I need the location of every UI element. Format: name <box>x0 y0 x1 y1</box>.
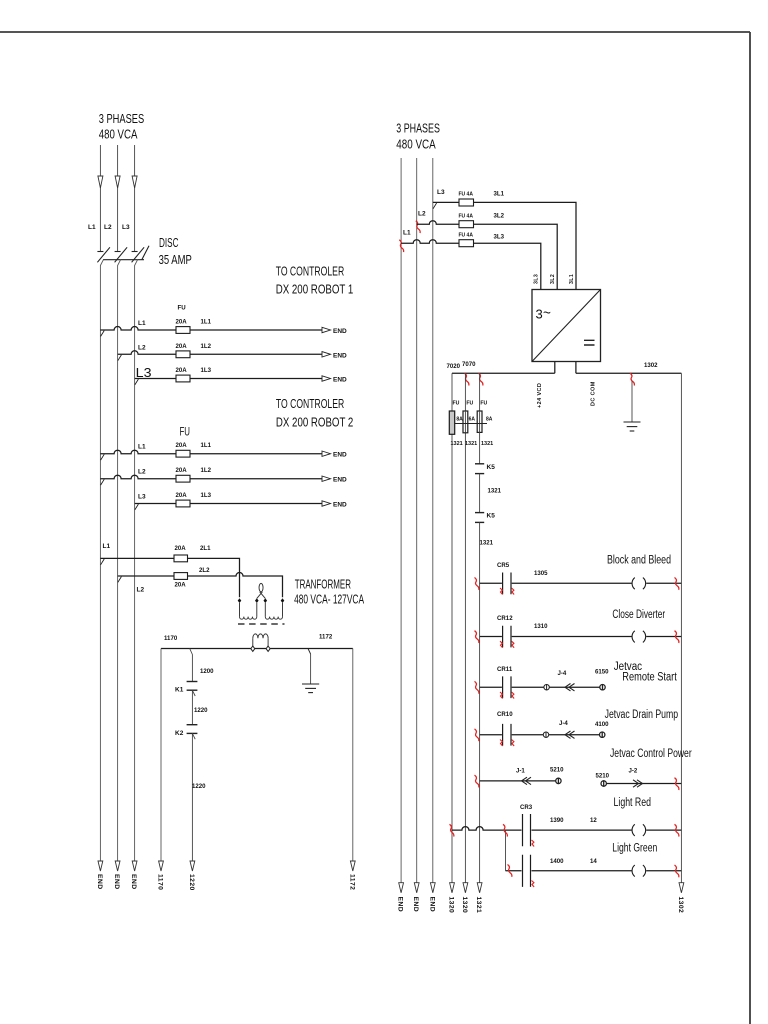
fuse 20A row8 <box>174 573 188 580</box>
svg-text:1320: 1320 <box>448 897 455 914</box>
fuse FU 20A row3 <box>176 375 190 382</box>
svg-text:1170: 1170 <box>164 635 178 642</box>
svg-text:FU 4A: FU 4A <box>459 232 474 238</box>
nub to ground drop <box>308 649 311 655</box>
svg-text:END: END <box>428 897 435 913</box>
fuse FU 4A row 3L2 <box>459 221 474 228</box>
svg-text:20A: 20A <box>176 442 188 449</box>
contact CR10 bars <box>503 724 511 746</box>
svg-text:FU: FU <box>180 425 191 439</box>
svg-text:14: 14 <box>590 858 597 865</box>
primary terminal diamond 4 <box>281 598 285 603</box>
svg-text:K5: K5 <box>487 464 496 471</box>
red mark 1302 <box>630 373 634 385</box>
disc pole2 fixed contact tick <box>115 251 121 253</box>
svg-text:L2: L2 <box>137 587 145 594</box>
svg-text:Light Red: Light Red <box>614 797 652 809</box>
svg-text:7070: 7070 <box>462 361 476 368</box>
arrow 1172 <box>350 861 355 871</box>
svg-text:20A: 20A <box>176 367 188 374</box>
svg-text:J-4: J-4 <box>559 720 568 727</box>
contact CR3 bars <box>523 814 531 846</box>
svg-text:L3: L3 <box>437 189 445 196</box>
svg-text:Light Green: Light Green <box>612 843 657 855</box>
svg-text:8A: 8A <box>456 417 463 423</box>
svg-text:J-4: J-4 <box>558 670 567 677</box>
svg-text:END: END <box>96 874 103 890</box>
contact CR3 aux bars <box>523 855 531 887</box>
contact K5 lower bars <box>475 512 484 514</box>
svg-text:END: END <box>333 502 347 509</box>
fuse column 1 (FU 8A / 1320) <box>451 373 453 883</box>
END arrow row2 <box>322 352 331 357</box>
svg-text:1321: 1321 <box>475 897 482 914</box>
svg-text:K5: K5 <box>487 513 496 520</box>
svg-text:1320: 1320 <box>461 897 468 914</box>
svg-text:CR3: CR3 <box>520 804 533 811</box>
arrow 1302 <box>679 883 684 893</box>
svg-text:FU: FU <box>178 305 187 312</box>
rung 7: CR3 aux -> Light Green <box>506 855 682 887</box>
svg-text:L1: L1 <box>138 444 146 451</box>
svg-text:1172: 1172 <box>319 634 333 641</box>
svg-text:END: END <box>333 377 347 384</box>
svg-text:TO CONTROLER: TO CONTROLER <box>276 397 344 411</box>
svg-text:3L1: 3L1 <box>494 191 505 198</box>
terminal 4100 circle <box>600 732 605 737</box>
disc pole3 blade <box>132 247 145 262</box>
bus jog around row7 <box>101 559 105 565</box>
svg-text:K1: K1 <box>175 687 184 694</box>
svg-text:2L2: 2L2 <box>199 567 210 574</box>
svg-text:20A: 20A <box>176 492 188 499</box>
svg-text:20A: 20A <box>176 319 188 326</box>
fuse 20A row7 <box>174 555 188 562</box>
bus L3 vertical <box>135 260 138 861</box>
disc linkage bar <box>103 259 144 261</box>
svg-text:6A: 6A <box>469 417 476 423</box>
svg-text:20A: 20A <box>175 545 187 552</box>
fuse column 3 (FU 8A / 1321) <box>479 373 481 411</box>
svg-text:Block and Bleed: Block and Bleed <box>607 555 671 567</box>
svg-text:1220: 1220 <box>194 707 208 714</box>
svg-text:END: END <box>333 477 347 484</box>
branch nub 1L1 <box>101 331 105 337</box>
red mark 7070 tap2 <box>479 373 483 385</box>
svg-text:3L3: 3L3 <box>494 233 505 240</box>
svg-text:1305: 1305 <box>534 570 548 577</box>
svg-text:L1: L1 <box>103 543 111 550</box>
arrow END L1 <box>98 861 103 871</box>
wire 1390 with jumps over 1320/1321 rails <box>452 827 681 830</box>
svg-text:1400: 1400 <box>550 858 564 865</box>
K1 K2 relay coil chain <box>187 649 198 862</box>
wire 1L3 <box>135 378 322 380</box>
arrow 1170 <box>159 861 164 871</box>
contact K1 bars <box>187 681 198 683</box>
bus L1 vertical <box>100 260 103 861</box>
svg-text:+24 VCD: +24 VCD <box>537 383 543 408</box>
group2 row 1L2 <box>100 475 322 485</box>
svg-text:DC COM: DC COM <box>591 381 597 406</box>
fuse tie bar <box>455 423 487 425</box>
wire 7020/7070 bus <box>452 372 555 374</box>
svg-text:3L3: 3L3 <box>534 274 540 284</box>
svg-text:CR5: CR5 <box>497 562 510 569</box>
bus R-L1 vertical <box>400 158 402 883</box>
wire 3L2 jump over L3 <box>417 221 558 290</box>
svg-text:1321: 1321 <box>481 441 493 447</box>
disc pole1 fixed contact tick <box>97 251 103 253</box>
svg-text:END: END <box>113 874 120 890</box>
border frame right line <box>749 32 751 1024</box>
svg-text:L3: L3 <box>138 494 146 501</box>
group1 row 1L1 <box>100 327 322 337</box>
svg-text:3 PHASES: 3 PHASES <box>99 112 145 126</box>
bus jog around row5 <box>101 479 105 485</box>
group2 row 1L3 <box>135 504 322 510</box>
terminal 6150 circle <box>600 685 605 690</box>
wire 1170 drop <box>160 649 162 862</box>
svg-text:7020: 7020 <box>447 363 461 370</box>
coil Close Diverter <box>632 631 646 643</box>
svg-text:L2: L2 <box>138 344 146 351</box>
svg-text:3 PHASES: 3 PHASES <box>396 122 440 136</box>
ground drop wire <box>310 654 312 684</box>
bus L2 vertical <box>118 260 121 861</box>
nub to K chain <box>190 649 193 655</box>
fuse column 2 (FU 6A / 1320) <box>464 373 466 883</box>
svg-text:FU: FU <box>466 401 473 407</box>
arrow END R-L1 <box>399 883 404 893</box>
contact K2 bars <box>187 724 198 726</box>
svg-text:L2: L2 <box>104 224 112 231</box>
svg-text:1390: 1390 <box>550 817 564 824</box>
bottom END arrows left schematic <box>98 861 355 871</box>
svg-text:Jetvac Drain Pump: Jetvac Drain Pump <box>605 709 679 721</box>
svg-text:FU: FU <box>453 401 460 407</box>
svg-text:L2: L2 <box>418 211 426 218</box>
bus jog around row6 <box>135 504 139 510</box>
branch nub 1L3 <box>135 379 139 385</box>
svg-text:Jetvac Control Power: Jetvac Control Power <box>610 748 692 760</box>
svg-text:2L1: 2L1 <box>200 545 211 552</box>
svg-text:480 VCA: 480 VCA <box>99 127 138 141</box>
ladder right rail (wire 1302) <box>680 373 682 883</box>
svg-text:5210: 5210 <box>596 773 610 780</box>
disc pole2 blade <box>115 247 128 262</box>
ladder left rail (wire 1321) <box>479 522 481 882</box>
wire 1L2 robot2 with jumps <box>100 475 322 478</box>
svg-text:12: 12 <box>590 817 597 824</box>
svg-text:1321: 1321 <box>465 441 477 447</box>
wire L3 incoming drop <box>134 145 136 252</box>
terminal circle rung3 <box>544 685 549 690</box>
primary jumper lasso link <box>257 592 263 599</box>
svg-text:1200: 1200 <box>200 668 214 675</box>
red mark 7070 tap1 <box>465 373 469 385</box>
svg-text:1321: 1321 <box>451 441 463 447</box>
wire 3L3 jumps over L2 L3 <box>401 240 541 290</box>
wire 1172 drop <box>352 649 354 862</box>
connector J-4 chevrons rung4 <box>565 731 575 738</box>
red mark at L1 branch <box>399 240 403 252</box>
connector J-1 chevrons <box>522 777 532 784</box>
svg-text:1220: 1220 <box>192 783 206 790</box>
fuse FU 20A row1 <box>176 327 190 334</box>
nub below K2 <box>192 734 195 740</box>
wire 1L3 robot2 <box>135 503 322 505</box>
fuse FU 20A row2 <box>176 351 190 358</box>
svg-text:20A: 20A <box>176 467 188 474</box>
svg-text:TO CONTROLER: TO CONTROLER <box>276 265 345 279</box>
svg-text:Close Diverter: Close Diverter <box>612 609 665 621</box>
red mark at L2 branch <box>416 221 420 233</box>
arrow END L3 <box>132 861 137 871</box>
ground symbol (transformer secondary) <box>302 649 319 693</box>
svg-text:DX 200 ROBOT 1: DX 200 ROBOT 1 <box>276 282 354 296</box>
bus R-L2 vertical <box>416 158 418 883</box>
power converter U1 (3~ / =) <box>532 290 601 362</box>
primary coil B (4 bumps) <box>265 617 282 620</box>
disc pole1 blade <box>97 247 110 262</box>
connector J-2 chevrons <box>633 780 643 787</box>
svg-text:1L1: 1L1 <box>201 319 212 326</box>
arrow 1320 b <box>463 883 468 893</box>
svg-text:L1: L1 <box>403 230 411 237</box>
svg-text:1302: 1302 <box>677 897 684 914</box>
primary terminal diamond 3 <box>264 598 268 603</box>
fuse FU 4A row 3L1 <box>459 199 474 206</box>
svg-text:TRANFORMER: TRANFORMER <box>295 578 351 592</box>
svg-text:Remote Start: Remote Start <box>622 672 677 684</box>
group2 row 1L1 <box>100 450 322 460</box>
group1 row 1L3 <box>135 379 322 385</box>
secondary terminal diamond right <box>266 646 270 651</box>
svg-text:J-1: J-1 <box>516 768 525 775</box>
svg-text:L1: L1 <box>138 320 146 327</box>
secondary coil (3 bumps up) <box>253 634 268 638</box>
connector J-4 chevrons rung3 <box>565 684 575 691</box>
group3 row 2L2 <box>118 573 283 598</box>
svg-text:END: END <box>397 897 404 913</box>
svg-text:1L3: 1L3 <box>201 367 212 374</box>
svg-text:4100: 4100 <box>595 721 609 728</box>
DC bus +24VCD / DC COM <box>452 362 681 374</box>
bus jog around row4 <box>101 454 105 460</box>
arrow END L2 <box>115 861 120 871</box>
wire 1200 <box>191 655 193 682</box>
wire 3L1 <box>433 202 576 289</box>
svg-text:1172: 1172 <box>348 874 355 890</box>
rung 5 left: J-1 to 5210 <box>480 780 556 782</box>
disconnect switch DISC 35 AMP <box>97 246 149 262</box>
contact CR5 bars <box>503 573 511 595</box>
svg-text:~: ~ <box>543 306 551 321</box>
END arrow row1 <box>322 327 331 332</box>
secondary terminal diamond left <box>251 646 255 651</box>
svg-text:K2: K2 <box>175 730 184 737</box>
svg-text:1321: 1321 <box>488 488 502 495</box>
border frame top line <box>0 31 750 33</box>
svg-text:480 VCA: 480 VCA <box>396 137 436 151</box>
svg-text:END: END <box>130 874 137 890</box>
svg-text:CR11: CR11 <box>497 666 513 673</box>
primary coil B stubs <box>265 603 282 617</box>
svg-text:1L3: 1L3 <box>201 492 212 499</box>
wire 1321 mid <box>479 474 481 513</box>
svg-text:END: END <box>333 352 347 359</box>
branch to rung 7 <box>505 830 507 871</box>
svg-text:DX 200 ROBOT 2: DX 200 ROBOT 2 <box>276 415 353 429</box>
svg-text:FU 4A: FU 4A <box>459 213 474 219</box>
svg-text:1L2: 1L2 <box>201 467 212 474</box>
bus R-L3 vertical <box>432 158 434 883</box>
ground at DC COM <box>624 381 641 431</box>
arrowhead L1 feed <box>98 176 103 188</box>
END arrow row3 <box>322 376 331 381</box>
contact CR11 bars <box>503 676 511 698</box>
nub below K1 <box>192 690 195 696</box>
stub +24 VCD <box>554 362 556 374</box>
arrow END R-L2 <box>414 883 419 893</box>
svg-text:1321: 1321 <box>480 540 494 547</box>
svg-text:8A: 8A <box>486 417 493 423</box>
disc pole3 fixed contact tick <box>132 251 138 253</box>
svg-text:CR10: CR10 <box>497 711 513 718</box>
svg-text:3L2: 3L2 <box>494 212 505 219</box>
wire from fuse3 to K5 <box>479 432 481 463</box>
wire 1170-1172 secondary bus <box>161 649 353 862</box>
svg-text:3L1: 3L1 <box>569 274 575 284</box>
svg-text:J-2: J-2 <box>629 768 638 775</box>
wire 1220 mid <box>191 690 193 724</box>
svg-text:480 VCA- 127VCA: 480 VCA- 127VCA <box>294 593 364 607</box>
svg-text:L3: L3 <box>122 224 130 231</box>
branch nub 1L2 <box>118 355 122 361</box>
nub 3L1 <box>433 203 437 209</box>
svg-text:DISC: DISC <box>159 236 179 250</box>
svg-text:FU 4A: FU 4A <box>459 192 474 198</box>
wire 1L1 robot2 with jumps <box>100 450 322 453</box>
secondary stubs <box>253 638 268 646</box>
primary coil A stubs <box>240 603 257 617</box>
terminal 5210 circle left <box>556 778 561 783</box>
svg-text:1220: 1220 <box>188 874 195 891</box>
svg-text:FU: FU <box>480 401 487 407</box>
K5 contact chain <box>475 432 484 882</box>
svg-text:3: 3 <box>536 307 543 322</box>
arrowhead L2 feed <box>115 176 120 188</box>
arrowhead L3 feed <box>132 176 137 188</box>
svg-text:END: END <box>412 897 419 913</box>
primary terminal diamond 1 <box>238 598 242 603</box>
svg-text:END: END <box>333 328 347 335</box>
wire 1L2 with jump over L3 <box>118 351 322 355</box>
primary coil A (4 bumps) <box>240 617 257 620</box>
transformer core dashed line <box>238 623 285 625</box>
wire 2L1 <box>100 558 239 597</box>
contact K5 upper bars <box>475 463 484 465</box>
svg-text:1310: 1310 <box>534 623 548 630</box>
arrow 1321 <box>477 883 482 893</box>
coil Block and Bleed <box>632 578 646 590</box>
wire 1L1 with jumps over L2 L3 <box>100 327 322 330</box>
disc handle diagonal <box>142 246 149 260</box>
svg-text:20A: 20A <box>175 582 187 589</box>
rung 5 right: 5210 J-2 to rail <box>606 783 681 785</box>
wire 2L2 with jump over 2L1 drop <box>118 573 283 598</box>
wire L2 incoming drop <box>117 145 119 252</box>
svg-text:5210: 5210 <box>550 767 564 774</box>
svg-text:35 AMP: 35 AMP <box>159 253 192 267</box>
arrow END R-L3 <box>430 883 435 893</box>
primary terminal diamond 2 <box>255 598 259 603</box>
svg-text:1302: 1302 <box>644 362 658 369</box>
svg-text:3L2: 3L2 <box>550 274 556 284</box>
wire 1302 bus <box>576 362 682 374</box>
DC output symbol = <box>584 340 595 345</box>
svg-text:1L1: 1L1 <box>201 442 212 449</box>
arrow 1320 a <box>450 883 455 893</box>
bottom END arrows right schematic <box>399 883 684 893</box>
terminal circle rung4 <box>543 732 548 737</box>
wire 1220 lower <box>191 733 193 861</box>
terminal 5210 circle right <box>601 781 606 786</box>
svg-text:L3: L3 <box>136 366 152 380</box>
coil Light Green <box>632 865 646 877</box>
svg-text:L2: L2 <box>138 469 146 476</box>
svg-text:END: END <box>333 452 347 459</box>
svg-text:CR12: CR12 <box>497 615 513 622</box>
svg-text:L1: L1 <box>88 224 96 231</box>
group1 row 1L2 <box>118 351 322 361</box>
contact CR12 bars <box>503 626 511 648</box>
coil Light Red <box>632 824 646 836</box>
svg-text:1L2: 1L2 <box>201 343 212 350</box>
arrow 1220 <box>190 861 195 871</box>
fuse FU 4A row 3L3 <box>459 240 474 247</box>
wire L1 incoming drop <box>99 145 101 252</box>
svg-text:1170: 1170 <box>157 874 164 890</box>
svg-text:6150: 6150 <box>595 669 609 676</box>
bus jog around row8 <box>118 577 122 583</box>
svg-text:20A: 20A <box>176 343 188 350</box>
